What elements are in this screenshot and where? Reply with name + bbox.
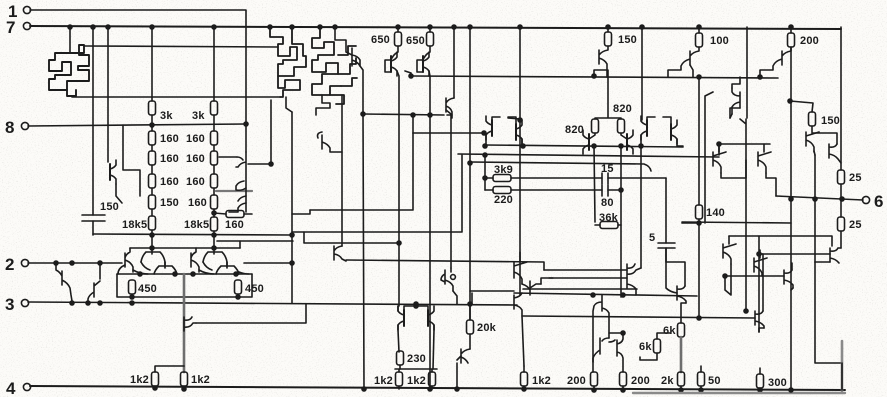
wire x520/cluster y76 node	[758, 75, 762, 79]
resistor 3k9	[493, 175, 511, 182]
resistor 1k2	[396, 372, 403, 386]
node dot rail x623	[621, 388, 625, 392]
svg-text:1k2: 1k2	[191, 374, 210, 386]
pin 6 wire	[776, 196, 863, 200]
wire Q28 collector	[397, 306, 399, 311]
transistor Q18 right pair	[671, 120, 677, 144]
transistor Q32	[522, 281, 541, 295]
transistor Q52	[830, 248, 841, 263]
transistor Q16	[627, 130, 633, 154]
wire rail to 3k col1	[151, 27, 153, 101]
svg-text:1k2: 1k2	[532, 375, 551, 387]
wire comb2 to x363	[360, 66, 363, 114]
svg-text:160: 160	[225, 219, 244, 231]
pin 6 terminal	[862, 196, 869, 203]
wire gray bottom echo	[633, 392, 845, 394]
node dot rail x70	[68, 25, 72, 29]
svg-text:160: 160	[186, 176, 205, 188]
node dot rail x270	[268, 25, 272, 29]
comb2 right finger extension	[330, 46, 357, 104]
wire pin8 branch stair	[123, 125, 140, 196]
wire tail gray vertical	[183, 274, 186, 372]
wire 25 to pin6	[840, 184, 842, 199]
transistor Q48	[754, 250, 767, 276]
transistor Q28	[398, 306, 404, 330]
resistor 25 lower	[840, 199, 842, 217]
capacitor C3 80	[602, 185, 608, 196]
node dot rail x93	[91, 25, 95, 29]
wire y210 to comb area	[292, 210, 310, 214]
wire 6k lower leads	[640, 333, 670, 360]
transistor Q21	[154, 262, 177, 274]
svg-text:160: 160	[160, 176, 179, 188]
node dot y76 x594	[592, 74, 596, 78]
node dot y304 x416	[414, 302, 418, 306]
wire 36k right	[618, 224, 621, 226]
svg-text:220: 220	[494, 194, 513, 206]
wire x746 to Q43	[740, 119, 746, 311]
svg-text:650: 650	[371, 34, 390, 46]
svg-text:820: 820	[613, 103, 632, 115]
wire y317 long row	[522, 316, 755, 318]
node dot rail x524	[522, 387, 526, 391]
wire gray col2 to Q7	[216, 190, 252, 192]
node dot x623 y333	[621, 331, 625, 335]
svg-text:1k2: 1k2	[130, 374, 149, 386]
wire y133 riser to y210	[310, 133, 413, 210]
wire x725 down	[725, 264, 731, 295]
wire x413 segment	[412, 115, 414, 133]
wire 1k2 x524 to rail	[523, 366, 525, 389]
wire pin6 node dots	[789, 197, 793, 201]
node dot x411 y76	[409, 74, 413, 78]
node dot rail x335	[333, 25, 337, 29]
wire rail down x108	[107, 27, 109, 162]
capacitor C1 150 top plate	[82, 214, 105, 216]
node dot rail x430	[428, 25, 432, 29]
svg-text:25: 25	[849, 219, 862, 231]
wire 3k9 to cap15	[511, 177, 602, 179]
node dot x292 y263	[290, 261, 294, 265]
svg-text:1k2: 1k2	[374, 375, 393, 387]
wire 25 lower down	[840, 231, 842, 248]
transistor Q30	[461, 349, 470, 363]
wire Q28 emitter down	[398, 325, 399, 352]
resistor 200 top	[790, 27, 792, 33]
node dots y295	[591, 293, 595, 297]
node dot y114 x363	[361, 112, 365, 116]
node dot x699 y223	[697, 221, 701, 225]
wire y163 bus	[470, 162, 651, 171]
wire gray x842	[841, 341, 844, 391]
wire y261 bus	[346, 260, 544, 270]
node dot x725 y276	[723, 274, 727, 278]
transistor Q29	[428, 306, 434, 330]
Q2 lower fingers	[278, 76, 300, 97]
resistor 230	[397, 351, 404, 365]
svg-text:6: 6	[874, 192, 883, 211]
resistor 820 right	[618, 119, 625, 133]
node dot rail x398	[396, 25, 400, 29]
node dot rail x152	[150, 25, 154, 29]
wire x595 drop	[594, 146, 595, 222]
node dot x699 y318	[697, 316, 701, 320]
resistor 140	[698, 77, 700, 205]
wire 20k top	[469, 304, 471, 320]
transistor Q17 right pair	[641, 116, 647, 140]
resistor 820 left	[592, 119, 599, 133]
node dot rail x791b	[789, 388, 793, 392]
node dot y115 x430	[428, 113, 432, 117]
transistor Q5	[110, 160, 116, 184]
wire 150 top	[790, 101, 813, 112]
wire x642 from rail	[641, 27, 643, 120]
wire 220 to cap80	[511, 189, 602, 191]
wire y291 link	[470, 290, 514, 292]
transistor Q6 on pin1 column	[236, 152, 246, 212]
node dot y235 x214	[212, 233, 216, 237]
resistor 220	[493, 187, 511, 194]
wire 1k2 bottoms to rail	[155, 386, 184, 389]
svg-text:1k2: 1k2	[407, 375, 426, 387]
node dot x399 y243	[397, 241, 401, 245]
wire x364 long vertical	[363, 114, 364, 388]
transistor Q45	[758, 144, 771, 173]
svg-text:8: 8	[5, 118, 14, 137]
node dot rail x608	[606, 25, 610, 29]
node dots y146	[483, 144, 487, 148]
wire comb1 top to right	[84, 46, 278, 47]
wire Q30 emitter to rail	[457, 356, 461, 389]
svg-text:450: 450	[138, 283, 157, 295]
node dot rail x457	[455, 387, 459, 391]
svg-text:15: 15	[601, 163, 614, 175]
node dot x719 y155	[718, 144, 720, 155]
transistor Q38 stack	[627, 264, 641, 295]
node dot y235 x152	[150, 233, 154, 237]
wire Q38 up	[640, 146, 642, 268]
wire Q46 collector up	[759, 254, 763, 311]
wire y103 link	[730, 108, 740, 118]
transistor Q9 under 650	[392, 46, 398, 58]
pin 8 terminal	[21, 122, 28, 129]
transistor Q15	[583, 130, 589, 154]
svg-text:3: 3	[5, 295, 14, 314]
pin 1 terminal	[23, 6, 30, 13]
wire Q9/Q10 base tie	[385, 60, 423, 72]
transistor Q20	[141, 248, 165, 268]
resistor 1k2	[181, 372, 188, 386]
transistor Q37	[609, 333, 623, 372]
pin 8 wire	[28, 124, 246, 126]
resistor 450 left	[129, 280, 136, 294]
wire left pair top link	[508, 118, 520, 119]
wire y133 bus	[413, 132, 484, 134]
wire cap to line	[92, 221, 94, 235]
node dot rail x699	[697, 25, 701, 29]
resistor 650	[397, 27, 399, 32]
transistor Q4 hook	[352, 48, 360, 66]
wire col2 to Q6	[219, 156, 237, 158]
node dot x214 y248	[212, 246, 216, 250]
wire y223 stub	[682, 222, 699, 224]
wire 20k bottom to Q30	[469, 334, 471, 349]
wire y155/y160 stub	[484, 155, 486, 190]
svg-text:230: 230	[407, 353, 426, 365]
wire y241 quad to x292	[217, 240, 293, 242]
svg-text:150: 150	[100, 201, 119, 213]
svg-text:3k: 3k	[192, 110, 205, 122]
transistor Q56 at x451	[441, 268, 453, 291]
wire V- bottom rail	[30, 386, 845, 390]
wire y243 bus with jog	[304, 232, 399, 243]
wire from rail to comb	[69, 27, 71, 52]
svg-text:160: 160	[186, 153, 205, 165]
svg-text:6k: 6k	[639, 341, 652, 353]
svg-text:650: 650	[406, 35, 425, 47]
svg-text:2: 2	[5, 255, 14, 274]
wire to rail	[594, 386, 623, 390]
wire y236 row	[729, 236, 832, 246]
wire x292 long drop	[291, 112, 293, 303]
wire y293 x472	[471, 293, 473, 304]
wire 820 tops tie	[595, 70, 621, 119]
svg-text:140: 140	[706, 207, 725, 219]
wire 36k row	[595, 224, 600, 226]
transistor Q8 at x342	[334, 246, 346, 261]
Q10 emitter down long	[429, 71, 430, 388]
resistor 1k2	[429, 372, 436, 386]
wire cap80 right	[608, 189, 621, 191]
wire y235 bus	[93, 234, 292, 235]
wire Q27 base line	[196, 304, 306, 323]
node dot bottom rail x430	[428, 387, 432, 391]
svg-text:25: 25	[849, 172, 862, 184]
wire rail to 3k col2	[213, 27, 215, 101]
wire 1k2 top tie	[155, 366, 184, 372]
wire y155 long bus	[458, 154, 719, 157]
node dot rail x292	[290, 25, 294, 29]
wire Q41 collector	[690, 65, 693, 77]
pin 3 wire	[28, 302, 517, 305]
svg-text:3k: 3k	[160, 110, 173, 122]
wire x520 drop	[519, 27, 521, 295]
transistor Q50	[806, 126, 819, 152]
wire x342 down	[341, 95, 343, 246]
svg-text:4: 4	[6, 379, 16, 397]
wire x666 cap5 riser	[665, 178, 667, 243]
resistor 150 top	[607, 27, 609, 32]
transistor Q36	[593, 338, 609, 362]
node dots y274	[138, 272, 142, 276]
quad top rail	[130, 247, 240, 249]
wire Q32 collector right	[541, 278, 553, 284]
Q2 tail wire down	[286, 97, 292, 112]
resistor 3k	[211, 101, 218, 115]
pin 1 wire	[30, 10, 246, 152]
svg-text:5: 5	[649, 232, 655, 244]
wire y114 bus	[363, 114, 444, 115]
resistor 200	[591, 372, 598, 386]
wire quad to x292 riser	[239, 241, 241, 248]
quad body box	[117, 274, 252, 297]
node dot rail x454	[452, 25, 456, 29]
transistor Q14 left pair	[516, 120, 522, 144]
node dot rail x760	[758, 388, 762, 392]
node dot x470 y163	[468, 161, 472, 165]
svg-text:160: 160	[160, 153, 179, 165]
resistor 200	[620, 372, 627, 386]
node dot rail x108	[106, 25, 110, 29]
resistor 650	[429, 27, 431, 32]
wire Q50 emitter into x815 column	[814, 151, 815, 155]
wire Q43 links	[730, 77, 740, 118]
pin2 line node dots	[54, 261, 58, 265]
wire Q17/Q18 links	[641, 117, 683, 146]
svg-text:820: 820	[565, 124, 584, 136]
resistor 150 right	[809, 112, 816, 126]
transistor Q3 lateral structure	[312, 27, 341, 95]
node dot x271 y164	[269, 162, 273, 166]
wire Q57 to x451	[446, 110, 452, 268]
wire x271 comb2 tail to Q6	[248, 100, 271, 164]
transistor Q44	[713, 144, 726, 173]
pin 4 terminal	[23, 383, 30, 390]
pin 7 terminal	[23, 22, 30, 29]
resistor 300	[757, 374, 764, 388]
resistor 160	[149, 151, 156, 165]
wire 230 bottom to tie	[399, 365, 401, 369]
svg-text:80: 80	[601, 197, 614, 209]
capacitor C1 bottom plate	[82, 220, 105, 222]
svg-text:20k: 20k	[477, 322, 497, 334]
svg-text:200: 200	[567, 375, 586, 387]
node dot rail x470	[468, 25, 472, 29]
transistor Q19	[125, 248, 133, 272]
wire y276 row	[725, 275, 784, 277]
wire Q5 emitter	[116, 184, 122, 203]
transistor Q43	[732, 88, 740, 114]
svg-text:160: 160	[188, 197, 207, 209]
wire V+ top rail	[30, 26, 841, 29]
transistor Q2 lateral structure	[270, 27, 306, 76]
resistor 50	[698, 372, 705, 386]
svg-text:18k5: 18k5	[184, 219, 209, 231]
node dots x485	[483, 153, 487, 157]
Q9 emitter down long	[397, 71, 399, 306]
node dot rail x214	[212, 25, 216, 29]
node dot rail x520	[518, 25, 522, 29]
wire to rail	[399, 386, 432, 389]
connection circle x453 y277	[451, 275, 456, 280]
wire y178 left	[485, 177, 493, 179]
transistor Q41	[668, 47, 699, 77]
wire 160h to Q7	[244, 213, 252, 215]
resistor 20k	[467, 320, 474, 334]
node dot bases	[414, 304, 418, 308]
resistor 25 upper	[838, 170, 845, 184]
Q1 tail	[67, 90, 76, 96]
wire y289 row Q32 to Q38	[523, 288, 637, 290]
node dot x759 y254	[757, 252, 761, 256]
wire Q52 to x815	[815, 254, 830, 262]
node dot rail x320	[318, 25, 322, 29]
transistor Q49	[784, 270, 793, 288]
transistor Q57	[446, 98, 454, 118]
capacitor C2 15	[602, 173, 608, 184]
transistor Q40	[594, 46, 608, 77]
resistor 1k2	[152, 372, 159, 386]
wire x759 vertical	[758, 236, 760, 332]
svg-text:150: 150	[160, 197, 179, 209]
resistor 160	[211, 151, 218, 165]
resistor 1k2 (x524)	[521, 372, 528, 386]
node dot pin8 x246	[244, 122, 248, 126]
wire x621 drop from emitter row	[620, 146, 622, 190]
svg-text:150: 150	[618, 34, 637, 46]
svg-text:18k5: 18k5	[122, 219, 147, 231]
transistor Q7c on pin1 column	[229, 203, 246, 212]
transistor Q24	[216, 262, 239, 274]
transistor Q7b on pin1 column	[236, 181, 246, 201]
svg-text:200: 200	[631, 375, 650, 387]
wire common emitter row y146	[485, 145, 683, 147]
wire y295 bus	[514, 293, 697, 296]
svg-text:50: 50	[708, 375, 721, 387]
resistor 160	[149, 131, 156, 145]
wire 820 bottoms to Q15/Q16	[589, 133, 627, 139]
transistor Q13 left pair	[486, 116, 492, 140]
wire rail end drop x841	[840, 27, 842, 170]
resistor 36k	[600, 222, 618, 229]
node dot	[212, 211, 216, 215]
svg-text:450: 450	[245, 283, 264, 295]
node dot x790 y101	[788, 99, 792, 103]
wire 50 leads	[700, 366, 702, 390]
transistor Q27 tail	[184, 317, 196, 331]
svg-text:100: 100	[710, 35, 729, 47]
wire 140 bottom	[698, 219, 700, 318]
transistor Q31 (x520 cluster)	[514, 252, 527, 284]
wire comb1 bottom to comb2	[73, 96, 280, 98]
wire x454 drop	[453, 27, 455, 98]
wire y190 left	[485, 189, 493, 191]
node dot x132 y297	[130, 295, 134, 299]
svg-text:200: 200	[800, 35, 819, 47]
resistor 6k upper	[678, 323, 685, 337]
node dot rail x594	[592, 388, 596, 392]
wire Q9 riser to y76	[405, 71, 411, 76]
wire cap5 down	[666, 248, 677, 293]
resistor 160	[211, 174, 218, 188]
transistor Q25 input left	[56, 263, 72, 301]
wire Q39 collector up	[666, 248, 685, 286]
resistor 450 right	[235, 280, 242, 294]
wire cap15 right	[608, 177, 666, 179]
node dot x292 y235	[290, 233, 294, 237]
node dot x238 y297	[236, 295, 240, 299]
wire y232 bus	[292, 155, 462, 232]
transistor Q33	[514, 293, 524, 366]
node dot x152 y248	[150, 246, 154, 250]
wire 300 leads	[759, 368, 761, 390]
node dot bottom rail x364	[362, 387, 366, 391]
wire x815 long vertical	[814, 155, 816, 262]
wire rail to cap150	[92, 27, 94, 215]
wire Q51 collector	[812, 133, 837, 144]
wire Q29 emitter down	[433, 325, 434, 369]
wire Q49 links	[791, 263, 793, 290]
